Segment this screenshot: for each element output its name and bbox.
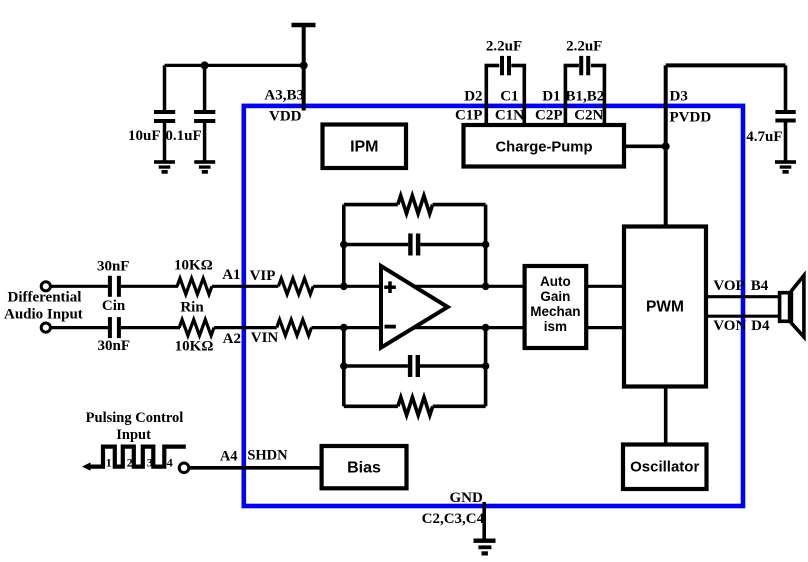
junction dot VIN at feedback: [340, 324, 348, 332]
svg-text:Auto: Auto: [540, 274, 571, 289]
wire feedback bottom-left vertical: [342, 328, 346, 407]
svg-text:Input: Input: [116, 427, 151, 443]
svg-text:Differential: Differential: [8, 290, 82, 306]
block IPM: [323, 125, 407, 169]
junction dot out bottom: [482, 324, 490, 332]
svg-text:Rin: Rin: [180, 300, 204, 316]
svg-text:VIP: VIP: [250, 268, 276, 284]
wire op-amp out bottom to Auto Gain: [413, 326, 525, 329]
capacitor C2 2.2uF flying cap loop: [564, 56, 607, 125]
junction dot on PVDD vertical: [662, 142, 670, 150]
ground for 10uF: [154, 160, 175, 174]
capacitor C1 2.2uF flying cap loop: [485, 56, 527, 125]
resistor feedback top: [344, 196, 486, 214]
svg-text:10KΩ: 10KΩ: [175, 338, 214, 354]
wire PVDD top horizontal: [666, 63, 786, 67]
wire Auto Gain to PWM top: [586, 285, 624, 288]
svg-text:B4: B4: [751, 278, 769, 294]
input terminal SHDN: [179, 463, 189, 473]
wire PWM to Oscillator: [664, 387, 668, 445]
capacitor 4.7uF: [775, 65, 795, 160]
svg-text:0.1uF: 0.1uF: [165, 128, 201, 144]
wire VDD horizontal rail: [165, 64, 304, 67]
svg-text:1: 1: [106, 455, 112, 469]
svg-text:C2,C3,C4: C2,C3,C4: [422, 511, 485, 527]
wire Rin to internal resistor: [212, 285, 279, 288]
svg-text:Bias: Bias: [347, 460, 381, 477]
svg-text:D1: D1: [542, 89, 560, 105]
svg-text:30nF: 30nF: [97, 258, 130, 274]
svg-text:Mechan: Mechan: [530, 304, 580, 319]
svg-text:Charge-Pump: Charge-Pump: [495, 140, 592, 156]
svg-text:ism: ism: [544, 319, 567, 334]
svg-text:Oscillator: Oscillator: [630, 459, 699, 476]
block Bias: [322, 446, 407, 488]
junction dot feedback cap bottom right: [482, 362, 490, 370]
junction dot VIP at feedback: [340, 283, 348, 291]
resistor Rin bottom 10K: [179, 320, 214, 336]
wire GND vertical: [482, 502, 486, 539]
svg-text:Pulsing Control: Pulsing Control: [86, 410, 184, 426]
svg-text:C1N: C1N: [495, 107, 524, 123]
capacitor 0.1uF: [194, 65, 215, 160]
wire feedback top-left vertical: [342, 205, 346, 287]
wire charge-pump output stub: [624, 145, 666, 149]
svg-text:C1: C1: [500, 89, 518, 105]
capacitor Cin top 30nF: [108, 276, 121, 297]
svg-text:A1: A1: [222, 267, 240, 283]
svg-text:10uF: 10uF: [128, 128, 161, 144]
resistor feedback bottom: [344, 397, 486, 415]
svg-text:VON: VON: [713, 318, 746, 334]
pulse waveform: [82, 447, 186, 471]
svg-text:A4: A4: [220, 448, 238, 464]
svg-text:2: 2: [127, 455, 133, 469]
wire Cin to Rin bottom: [121, 326, 180, 329]
wire to op-amp plus input: [313, 285, 381, 288]
svg-text:C2N: C2N: [574, 107, 603, 123]
ground for 4.7uF: [775, 160, 796, 174]
junction dot feedback cap top right: [482, 241, 490, 249]
wire VOP output: [706, 295, 780, 298]
capacitor feedback bottom: [344, 355, 486, 377]
svg-text:VIN: VIN: [251, 330, 279, 346]
wire VON output: [706, 315, 780, 318]
junction dot feedback cap top left: [340, 241, 348, 249]
svg-text:3: 3: [147, 455, 153, 469]
svg-text:SHDN: SHDN: [247, 448, 288, 464]
capacitor feedback top: [344, 234, 486, 256]
svg-text:30nF: 30nF: [98, 338, 131, 354]
wire op-amp out top to Auto Gain: [414, 285, 525, 288]
input terminal VIP: [41, 282, 50, 291]
svg-text:A3,B3: A3,B3: [264, 88, 304, 104]
wire feedback bottom-right vertical: [484, 328, 488, 407]
junction dot on VDD rail at vertical: [300, 61, 308, 69]
svg-text:2.2uF: 2.2uF: [486, 39, 522, 55]
resistor internal bottom: [277, 320, 312, 336]
svg-text:Gain: Gain: [540, 289, 570, 304]
capacitor Cin bottom 30nF: [108, 317, 121, 338]
svg-text:IPM: IPM: [350, 139, 378, 156]
svg-text:PWM: PWM: [646, 299, 684, 316]
op-amp U1: [381, 266, 448, 348]
svg-text:B1,B2: B1,B2: [566, 89, 605, 105]
wire Auto Gain to PWM bottom: [586, 326, 624, 329]
svg-text:D2: D2: [464, 89, 482, 105]
svg-text:C1P: C1P: [455, 107, 483, 123]
wire to op-amp minus input: [312, 326, 382, 329]
svg-text:C2P: C2P: [535, 107, 563, 123]
wire VDD vertical from supply bar to VDD pin: [302, 25, 306, 111]
svg-text:PVDD: PVDD: [670, 109, 712, 125]
speaker LS1: [780, 276, 804, 337]
svg-text:4: 4: [167, 455, 173, 469]
wire VIN input to Cin: [51, 326, 108, 329]
IC boundary blue box: [244, 106, 743, 506]
svg-text:VOP: VOP: [713, 278, 744, 294]
wire Rin to internal resistor bottom: [214, 326, 277, 329]
resistor internal top: [278, 278, 313, 294]
svg-text:10KΩ: 10KΩ: [174, 257, 213, 273]
wire Cin to Rin: [121, 285, 178, 288]
svg-text:2.2uF: 2.2uF: [566, 39, 602, 55]
junction dot on VDD rail at C2: [201, 61, 209, 69]
block Oscillator: [623, 445, 707, 490]
svg-text:4.7uF: 4.7uF: [746, 129, 782, 145]
junction dot feedback cap bottom left: [340, 362, 348, 370]
svg-text:GND: GND: [450, 490, 484, 506]
power supply bar symbol: [292, 23, 316, 28]
svg-text:Cin: Cin: [102, 298, 126, 314]
wire VIP input to Cin: [51, 285, 108, 288]
svg-text:VDD: VDD: [269, 108, 302, 124]
block PWM: [624, 227, 706, 387]
ground symbol GND: [474, 539, 496, 556]
svg-text:D4: D4: [751, 318, 770, 334]
junction dot out top: [482, 283, 490, 291]
svg-text:D3: D3: [670, 89, 688, 105]
block Charge-Pump: [464, 125, 625, 167]
wire SHDN to Bias: [189, 466, 321, 470]
svg-text:A2: A2: [223, 331, 241, 347]
wire PVDD vertical to PWM: [664, 65, 668, 226]
ground for 0.1uF: [194, 160, 215, 174]
svg-text:Audio Input: Audio Input: [4, 307, 83, 323]
wire feedback top-right vertical: [484, 205, 488, 287]
resistor Rin top 10K: [177, 278, 212, 294]
block Auto Gain Mechanism: [525, 266, 587, 348]
capacitor 10uF: [154, 65, 175, 160]
input terminal VIN: [41, 323, 50, 332]
